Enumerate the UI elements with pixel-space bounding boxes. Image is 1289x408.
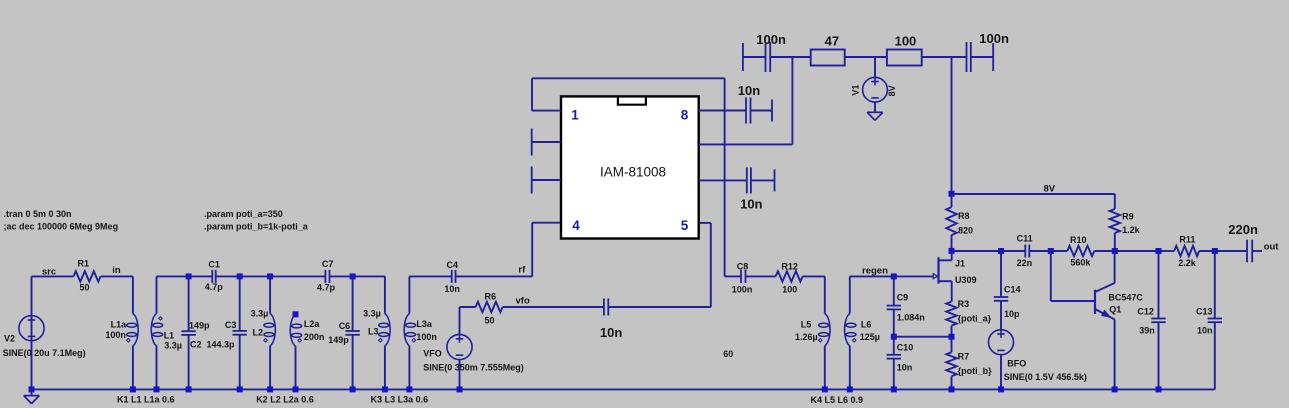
svg-text:C4: C4 [447, 260, 459, 270]
wire L3 bottom lead [384, 346, 386, 390]
junction C2 ground junction [186, 386, 192, 392]
svg-text:C8: C8 [737, 261, 749, 271]
open terminal pin2 bar [531, 129, 533, 156]
resistor R10 [1067, 246, 1094, 256]
wire pin4 stub [532, 222, 561, 224]
junction C6 ground junction [350, 386, 356, 392]
svg-text:.param poti_a=350: .param poti_a=350 [204, 209, 283, 219]
svg-text:4.7p: 4.7p [205, 282, 224, 292]
svg-text:1.26µ: 1.26µ [795, 332, 818, 342]
wire C1 to L2 rail [216, 275, 326, 277]
svg-text:K4 L5 L6 0.9: K4 L5 L6 0.9 [811, 395, 864, 405]
svg-text:C3: C3 [225, 320, 237, 330]
svg-text:C11: C11 [1017, 234, 1033, 244]
wire R3 bottom lead [951, 326, 953, 337]
voltage source BFO source [989, 330, 1014, 355]
junction V2 ground node [29, 386, 35, 392]
wire C2 bottom lead [188, 335, 190, 390]
junction Q1 emitter ground junction [1112, 386, 1118, 392]
junction C3 top junction [237, 273, 243, 279]
junction L3 ground junction [382, 386, 388, 392]
svg-text:{poti_b}: {poti_b} [958, 366, 992, 376]
svg-text:22n: 22n [1017, 258, 1033, 268]
wire ground stub V2 [31, 389, 33, 395]
wire C12 top lead [1158, 251, 1160, 319]
wire R7 bottom lead [951, 376, 953, 389]
wire BFO bottom lead [1000, 355, 1002, 390]
svg-text:regen: regen [862, 266, 888, 277]
svg-text:R6: R6 [485, 292, 497, 302]
junction R8 drain junction [949, 248, 955, 254]
junction C13 top junction [1212, 248, 1218, 254]
wire pin1 riser [531, 78, 533, 110]
wire pin7 riser to top rail [791, 57, 793, 144]
svg-text:SINE(0 350m 7.555Meg): SINE(0 350m 7.555Meg) [423, 362, 524, 372]
wire VFO to R6 [460, 306, 476, 308]
svg-text:L3a: L3a [416, 319, 433, 329]
wire C6 bottom lead [352, 335, 354, 390]
wire coupling cap to pin5 riser [608, 306, 711, 308]
resistor R12 [776, 271, 803, 281]
capacitor C2 [181, 331, 195, 335]
svg-text:100: 100 [782, 285, 797, 295]
svg-text:10n: 10n [600, 325, 622, 340]
svg-text:100n: 100n [756, 32, 786, 47]
wire drain node to C11 [952, 250, 1026, 252]
svg-text:J1: J1 [955, 259, 965, 269]
wire pin1 stub [532, 110, 561, 112]
junction C14 top junction [998, 248, 1004, 254]
wire L3 top lead [384, 276, 386, 313]
wire C8 to R12 [746, 275, 776, 277]
svg-text:10n: 10n [897, 362, 913, 372]
wire L3a top lead [408, 276, 410, 313]
svg-text:IAM-81008: IAM-81008 [600, 165, 666, 180]
svg-text:V2: V2 [4, 333, 15, 343]
svg-text:R11: R11 [1179, 234, 1195, 244]
svg-text:L3: L3 [368, 327, 379, 337]
junction C2 top junction [186, 273, 192, 279]
svg-text:50: 50 [80, 283, 90, 293]
svg-text:L1a: L1a [111, 320, 128, 330]
voltage source V1 [863, 77, 888, 102]
svg-text:50: 50 [485, 316, 495, 326]
resistor R7 [946, 352, 956, 376]
phase dot L2 dot [264, 338, 268, 342]
wire base wire [1051, 300, 1095, 302]
wire R6 to coupling cap [503, 306, 604, 308]
junction L3a ground junction [406, 386, 412, 392]
ground GND at V2 [24, 396, 40, 404]
wire junction to R11 [1159, 250, 1175, 252]
junction L2a ground junction [293, 386, 299, 392]
svg-text:10n: 10n [740, 197, 762, 212]
wire divider tap wire [894, 336, 952, 338]
capacitor C13 [1208, 319, 1222, 323]
capacitor C13 out cap 220n [1247, 240, 1252, 263]
wire C8 left lead [725, 275, 741, 277]
wire pin8 cap lead [725, 110, 746, 112]
junction R7 ground junction [949, 386, 955, 392]
phase dot L3a dot [412, 338, 416, 342]
svg-text:C12: C12 [1137, 307, 1154, 317]
wire C10 top lead [893, 337, 895, 355]
capacitor coupling cap 10n [604, 299, 608, 316]
inductor L3a [404, 314, 415, 346]
capacitor C6 [345, 331, 359, 335]
resistor R 100 [887, 50, 922, 66]
open terminal pin3 bar [531, 167, 533, 194]
wire L1 top lead [156, 276, 158, 313]
svg-text:4: 4 [572, 218, 580, 233]
svg-text:R8: R8 [958, 211, 970, 221]
svg-text:R3: R3 [958, 299, 970, 309]
wire rf riser [531, 223, 533, 277]
svg-text:144.3p: 144.3p [207, 339, 236, 349]
svg-text:1: 1 [571, 108, 579, 123]
wire C14 to BFO [1000, 301, 1002, 330]
svg-text:10n: 10n [738, 83, 760, 98]
svg-text:100n: 100n [979, 31, 1009, 46]
junction L2 ground junction [267, 386, 273, 392]
wire supply rail seg5 [971, 56, 993, 58]
junction 8V rail junction [949, 191, 955, 197]
junction C9 C10 junction [891, 334, 897, 340]
junction C3 ground junction [237, 386, 243, 392]
capacitor C9 [887, 306, 901, 310]
voltage source V2 [19, 316, 44, 341]
phase dot L2a dot [298, 339, 302, 343]
svg-text:1.084n: 1.084n [897, 312, 925, 322]
wire VFO bottom lead [459, 360, 461, 390]
svg-text:5: 5 [681, 218, 689, 233]
wire pin5 riser [710, 223, 712, 307]
resistor R11 [1174, 246, 1199, 256]
op-amp U1 IAM-81008 body [561, 96, 699, 238]
svg-text:4.7p: 4.7p [317, 283, 336, 293]
wire V2 top to src node [31, 276, 33, 340]
wire pin5 stub [699, 222, 711, 224]
node L2a floating end [293, 311, 299, 317]
junction L6 ground junction [847, 386, 853, 392]
transistor J1 U309 [933, 257, 952, 283]
wire L5 top lead [824, 276, 826, 313]
svg-text:vfo: vfo [516, 296, 530, 307]
transistor Q1 BC547C [1095, 283, 1115, 320]
capacitor C1 [212, 270, 215, 283]
wire C9 top lead [893, 276, 895, 305]
inductor L3 [379, 314, 390, 346]
svg-text:125µ: 125µ [860, 332, 880, 342]
wire L6 top lead [849, 276, 851, 313]
svg-text:10p: 10p [1004, 309, 1020, 319]
capacitor C7 [325, 270, 329, 283]
svg-text:C7: C7 [322, 259, 334, 269]
wire C14 top lead [1000, 251, 1002, 297]
phase dot L1 dot [159, 317, 163, 321]
svg-text:L1: L1 [164, 331, 175, 341]
svg-text:Q1: Q1 [1109, 305, 1121, 315]
capacitor supply cap 100n right [967, 42, 971, 72]
junction C6 top junction [350, 273, 356, 279]
svg-text:in: in [112, 265, 121, 276]
wire pin6 cap right lead [751, 179, 775, 181]
svg-text:100: 100 [895, 33, 917, 48]
junction BFO ground junction [998, 386, 1004, 392]
wire C3 bottom lead [239, 335, 241, 390]
svg-text:BC547C: BC547C [1108, 293, 1143, 303]
junction VFO ground junction [457, 386, 463, 392]
wire base drop wire [1050, 251, 1052, 301]
junction C12 ground junction [1156, 386, 1162, 392]
ground GND at V1 [867, 112, 883, 120]
svg-text:;ac dec 100000 6Meg 9Meg: ;ac dec 100000 6Meg 9Meg [4, 222, 119, 232]
wire 8V rail [952, 193, 1115, 195]
resistor R6 [476, 302, 503, 312]
svg-text:R9: R9 [1122, 211, 1134, 221]
wire in node down to L1a [132, 276, 134, 313]
svg-text:L5: L5 [801, 320, 812, 330]
capacitor C4 [452, 270, 456, 283]
junction R10 base junction [1048, 248, 1054, 254]
svg-text:200n: 200n [304, 332, 325, 342]
wire ground rail [32, 388, 1215, 390]
svg-text:8: 8 [681, 108, 689, 123]
svg-text:1.2k: 1.2k [1122, 225, 1141, 235]
resistor R1 [74, 271, 101, 281]
svg-text:C13: C13 [1196, 307, 1213, 317]
svg-text:60: 60 [723, 349, 733, 359]
svg-text:R10: R10 [1070, 235, 1087, 245]
junction C12 top junction [1156, 248, 1162, 254]
svg-text:V1: V1 [851, 85, 861, 96]
svg-text:.param poti_b=1k-poti_a: .param poti_b=1k-poti_a [204, 222, 309, 232]
wire supply rail seg4 [922, 56, 967, 58]
svg-text:C6: C6 [339, 321, 351, 331]
svg-text:R7: R7 [958, 352, 970, 362]
wire C10 bottom lead [893, 359, 895, 390]
junction R3 R7 junction [949, 334, 955, 340]
capacitor C12 [1151, 319, 1165, 323]
wire L2a bottom lead [295, 346, 297, 389]
wire L1 node rail to C1 [157, 275, 213, 277]
voltage source VFO source [447, 334, 472, 359]
wire C7 to L3 rail [330, 275, 385, 277]
wire out wire [1252, 250, 1262, 252]
wire supply rail seg2 [770, 56, 811, 58]
svg-text:8V: 8V [887, 85, 897, 96]
capacitor C10 [887, 355, 901, 359]
wire J1 drain riser [951, 251, 953, 260]
wire supply riser top [951, 57, 953, 207]
wire R8 bottom lead [951, 235, 953, 251]
svg-text:C10: C10 [897, 343, 914, 353]
wire C11 to R10 junction [1029, 250, 1067, 252]
svg-text:220n: 220n [1228, 222, 1258, 237]
wire R11 to C13 junction [1199, 250, 1247, 252]
capacitor C3 [233, 331, 247, 335]
open terminal pin8 cap open end [771, 100, 773, 122]
wire C12 bottom lead [1158, 322, 1160, 389]
inductor L2a [290, 314, 301, 346]
svg-text:R12: R12 [781, 261, 798, 271]
junction regen junction [891, 273, 897, 279]
capacitor C8 [741, 270, 746, 283]
svg-text:C1: C1 [208, 260, 220, 270]
svg-text:K2 L2 L2a 0.6: K2 L2 L2a 0.6 [256, 395, 314, 405]
svg-text:10n: 10n [444, 284, 460, 294]
svg-text:10n: 10n [1197, 325, 1213, 335]
open terminal supply cap left open end [742, 43, 744, 71]
svg-text:3.3µ: 3.3µ [164, 341, 182, 351]
open terminal supply cap right open end [992, 43, 994, 71]
svg-text:L6: L6 [861, 320, 872, 330]
junction L2 top junction [267, 273, 273, 279]
svg-text:L2a: L2a [304, 319, 321, 329]
wire C6 top lead [352, 276, 354, 331]
svg-text:K1 L1 L1a 0.6: K1 L1 L1a 0.6 [117, 395, 175, 405]
svg-text:rf: rf [518, 265, 526, 276]
wire L3a rail to C4 [409, 275, 451, 277]
svg-text:2.2k: 2.2k [1178, 258, 1197, 268]
svg-text:149p: 149p [189, 321, 210, 331]
svg-text:149p: 149p [328, 335, 349, 345]
svg-text:C14: C14 [1004, 285, 1021, 295]
resistor R9 [1110, 209, 1120, 233]
svg-text:L2: L2 [253, 328, 264, 338]
junction R9 collector junction [1112, 248, 1118, 254]
phase dot L5 dot [818, 338, 822, 342]
wire VFO top lead [459, 307, 461, 334]
wire R1 to in node [101, 275, 133, 277]
wire pin6 stub [699, 179, 747, 181]
svg-text:src: src [42, 267, 56, 278]
wire L5 bottom lead [824, 346, 826, 390]
phase dot L1a dot [127, 338, 131, 342]
svg-text:BFO: BFO [1007, 359, 1026, 369]
wire pin7 wire [699, 143, 793, 145]
wire pin8 vertical [724, 78, 726, 276]
wire V2 bottom lead [31, 341, 33, 390]
svg-text:SINE(0 1.5V 456.5k): SINE(0 1.5V 456.5k) [1004, 372, 1087, 382]
svg-text:8V: 8V [1044, 184, 1056, 195]
wire regen wire [850, 275, 934, 277]
wire pin2 stub [532, 141, 561, 143]
open terminal pin6 cap open end [774, 169, 776, 191]
wire Q1 emitter lead [1114, 320, 1116, 390]
svg-text:VFO: VFO [423, 349, 442, 359]
junction L1a ground junction [130, 386, 136, 392]
junction C10 ground junction [891, 386, 897, 392]
inductor L2 [264, 314, 275, 346]
svg-text:out: out [1264, 242, 1280, 253]
wire C4 to rf corner [456, 275, 533, 277]
svg-text:100n: 100n [416, 332, 437, 342]
U1 notch [618, 98, 646, 105]
capacitor supply cap 100n left [766, 42, 771, 72]
svg-text:SINE(0 20u 7.1Meg): SINE(0 20u 7.1Meg) [3, 348, 86, 358]
svg-text:3.3µ: 3.3µ [363, 309, 381, 319]
svg-text:100n: 100n [732, 285, 753, 295]
inductor L1a [127, 314, 138, 346]
wire supply rail seg3 [845, 56, 887, 58]
wire L3a bottom lead [408, 346, 410, 390]
wire supply rail seg1 [743, 56, 766, 58]
wire L6 bottom lead [849, 346, 851, 390]
junction L5 ground junction [822, 386, 828, 392]
svg-text:47: 47 [825, 33, 839, 48]
wire L2 top lead [269, 276, 271, 313]
wire C2 top lead [188, 276, 190, 331]
inductor L5 [819, 314, 830, 346]
capacitor bypass cap 10n pin8 [746, 98, 751, 124]
svg-text:C2: C2 [190, 339, 202, 349]
svg-text:C9: C9 [897, 293, 909, 303]
wire C13 bottom lead [1214, 322, 1216, 389]
svg-text:560k: 560k [1070, 258, 1091, 268]
capacitor bypass cap 10n pin6 [747, 167, 751, 193]
svg-text:{poti_a}: {poti_a} [958, 314, 992, 324]
svg-text:39n: 39n [1139, 325, 1155, 335]
junction L1 ground junction [154, 386, 160, 392]
inductor L1 [151, 314, 162, 346]
inductor L6 [845, 314, 856, 346]
wire C9 bottom lead [893, 309, 895, 336]
wire V1 bottom stub [874, 102, 876, 112]
wire top loop wire [532, 77, 725, 79]
svg-text:100n: 100n [105, 330, 126, 340]
capacitor C11 [1025, 245, 1029, 258]
wire R9 bottom lead [1114, 233, 1116, 251]
svg-text:U309: U309 [955, 275, 977, 285]
wire pin3 stub [532, 179, 561, 181]
wire J1 source lead [951, 281, 953, 301]
svg-text:.tran 0 5m 0 30n: .tran 0 5m 0 30n [4, 209, 72, 219]
wire pin8 cap right lead [751, 110, 773, 112]
svg-text:R1: R1 [78, 259, 90, 269]
wire V1 top stub [874, 57, 876, 77]
capacitor C14 [994, 297, 1008, 301]
wire Q1 collector lead [1114, 251, 1116, 283]
wire R7 top lead [951, 337, 953, 353]
svg-text:K3 L3 L3a 0.6: K3 L3 L3a 0.6 [371, 395, 429, 405]
wire C13 top lead [1214, 251, 1216, 319]
phase dot L6 dot [852, 338, 856, 342]
wire R12 to L5 corner [803, 275, 825, 277]
svg-text:820: 820 [958, 226, 973, 236]
svg-text:3.3µ: 3.3µ [251, 309, 269, 319]
wire L1 bottom lead [156, 346, 158, 390]
wire R10 to R9 junction [1094, 250, 1158, 252]
resistor R3 [946, 302, 956, 326]
phase dot L3 dot [379, 338, 383, 342]
resistor R8 [946, 207, 956, 235]
wire L1a bottom lead [132, 346, 134, 390]
wire L2 bottom lead [269, 346, 271, 390]
wire pin8 stub [699, 110, 725, 112]
wire src node to R1 [32, 275, 74, 277]
resistor R 47 [811, 50, 845, 66]
wire R9 top lead [1114, 194, 1116, 209]
wire C3 top lead [239, 276, 241, 331]
